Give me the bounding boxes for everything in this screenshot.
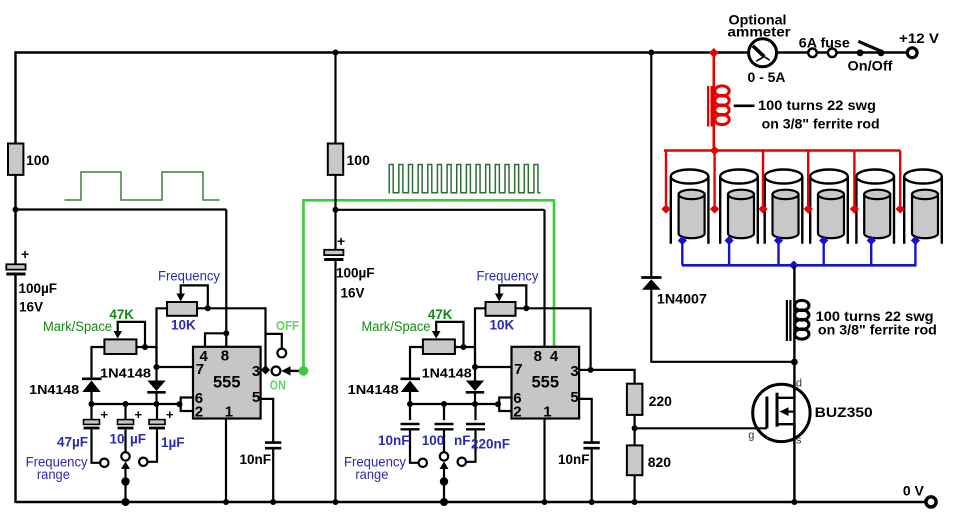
capacitor C-100uF/16V #1 plates <box>6 264 25 269</box>
wire cap3 upper stub (osc1) <box>156 404 158 420</box>
wire diode a to node row (osc2) <box>409 392 411 404</box>
svg-text:1: 1 <box>225 404 233 421</box>
wire pins6/2 bracket (osc2) <box>499 398 511 412</box>
wire red bus <box>664 149 900 152</box>
wire cap2 below to bottom rail <box>334 261 336 503</box>
svg-text:1µF: 1µF <box>161 435 185 450</box>
resistor R-100 left body <box>8 144 23 175</box>
arrow selector wiper (osc2) <box>440 462 449 470</box>
wire OFF branch <box>266 334 282 349</box>
node 10nF-rail (U1) <box>270 499 276 505</box>
node 820-rail <box>632 499 638 505</box>
node C supply2 x335 y210 <box>333 207 339 213</box>
wire 10K right to pin3 column (osc2) <box>516 308 591 370</box>
svg-text:3: 3 <box>570 363 578 380</box>
wire pin3 U2 to divider <box>591 370 635 384</box>
diode 1N4007 cathode bar <box>641 276 661 279</box>
node green wire end <box>299 366 309 376</box>
wire 10K wiper bracket (osc2) <box>499 285 526 308</box>
wire red vertical to bus <box>712 53 715 151</box>
wire left rail cap-to-bottom <box>14 275 16 503</box>
node drain junction <box>791 359 798 366</box>
wire cap1 upper stub (osc2) <box>409 404 411 420</box>
capacitor C-100uF/16V #2 plates <box>324 250 343 255</box>
diode 1N4148 b (osc1) cathode bar <box>147 391 165 394</box>
svg-text:+12 V: +12 V <box>899 30 940 46</box>
wire diode b to node row (osc1) <box>155 392 157 404</box>
node pins4/8 junction <box>223 330 229 336</box>
svg-text:s: s <box>796 435 802 447</box>
svg-text:47K: 47K <box>109 307 134 322</box>
diode 1N4007 body <box>642 279 661 290</box>
wire 10K right to pin3 column (osc1) <box>197 308 266 370</box>
wire pin1 to rail (U1) <box>225 419 227 504</box>
svg-text:220: 220 <box>649 393 673 409</box>
svg-text:220nF: 220nF <box>471 437 510 452</box>
svg-text:on 3/8" ferrite rod: on 3/8" ferrite rod <box>762 117 880 132</box>
node pin1-rail (U1) <box>223 499 229 505</box>
wire pin3 stub (U1) <box>261 369 266 371</box>
svg-text:10nF: 10nF <box>240 452 272 467</box>
svg-text:nF: nF <box>454 433 471 448</box>
wire left rail resistor-to-cap <box>14 174 16 265</box>
transistor Q1 channel bar <box>776 393 779 427</box>
potentiometer 10K (osc1) body <box>167 302 197 316</box>
node divider junction <box>632 425 638 431</box>
inductor L1 core lines <box>707 86 709 127</box>
node row junction a (osc2) <box>407 401 413 407</box>
svg-text:7: 7 <box>196 361 204 378</box>
svg-text:+: + <box>135 407 143 422</box>
wire pins6/2 bracket (osc1) <box>181 398 193 412</box>
svg-text:100: 100 <box>422 433 445 448</box>
inductor L2 core lines <box>786 300 788 341</box>
diode 1N4148 a (osc2) cathode bar <box>401 377 421 380</box>
arrow selector wiper (osc1) <box>121 462 130 470</box>
svg-text:on 3/8" ferrite rod: on 3/8" ferrite rod <box>818 323 937 338</box>
wire resistor2 upper stub <box>334 53 336 145</box>
arrow 47K wiper (osc1) <box>113 331 122 339</box>
wire pin7 row (osc2) <box>474 366 512 368</box>
node top rail x651 <box>648 50 654 56</box>
resistor R-820 body <box>627 445 643 475</box>
node cap2-rail <box>333 499 339 505</box>
svg-text:100: 100 <box>26 152 50 168</box>
wire blue bus <box>682 264 917 267</box>
diode 1N4148 b (osc2) cathode bar <box>466 391 484 394</box>
switch ON contact <box>272 367 281 376</box>
switch selector right contact (osc2) <box>458 458 466 466</box>
svg-text:1N4148: 1N4148 <box>348 382 399 397</box>
svg-text:d: d <box>796 378 802 390</box>
node source-rail <box>791 499 797 505</box>
wire gate wire <box>635 427 767 429</box>
wire blue drop cell 2 <box>728 242 730 265</box>
wire 10K left terminal down (osc1) <box>157 308 168 367</box>
node pin3 U2 junction <box>588 367 594 373</box>
switch selector mid contact (osc1) <box>121 452 129 460</box>
switch OFF contact <box>277 349 286 358</box>
resistor R-220 body <box>627 384 643 415</box>
capacitor cap1 electrolytic plates (osc1) <box>84 420 100 425</box>
svg-text:47K: 47K <box>428 307 453 322</box>
svg-text:4: 4 <box>550 348 559 365</box>
wire left rail upper <box>14 51 16 144</box>
svg-text:Mark/Space: Mark/Space <box>362 319 431 334</box>
node row junction b (osc2) <box>441 401 447 407</box>
svg-text:10: 10 <box>110 432 125 447</box>
op-amp/timer U1 555 body <box>193 347 261 419</box>
svg-text:100 turns 22 swg: 100 turns 22 swg <box>758 98 876 113</box>
node A junction left rail y209 <box>13 207 19 213</box>
capacitor 10nF (U2) plates <box>584 441 600 444</box>
svg-text:BUZ350: BUZ350 <box>815 405 873 420</box>
svg-text:+: + <box>21 246 29 262</box>
waveform slow square wave (osc1 output) <box>65 172 220 200</box>
svg-text:1N4148: 1N4148 <box>422 366 472 381</box>
svg-text:6A fuse: 6A fuse <box>799 35 850 51</box>
svg-text:100µF: 100µF <box>19 281 58 296</box>
svg-text:1N4148: 1N4148 <box>29 382 79 397</box>
node pin3 diamond <box>261 365 270 374</box>
wire cap2 upper stub (osc2) <box>443 404 445 420</box>
svg-text:555: 555 <box>532 374 560 392</box>
resistor R-100 mid body <box>328 144 343 175</box>
terminal 0V <box>926 497 936 507</box>
capacitor 10nF (U1) plates <box>265 441 281 444</box>
node blue electrode contact cell 3 <box>774 236 783 245</box>
svg-text:820: 820 <box>648 454 672 470</box>
wire red drop cell 5 <box>853 151 855 206</box>
svg-text:7: 7 <box>514 361 522 378</box>
svg-text:8: 8 <box>534 348 542 365</box>
wire cap3 upper stub (osc2) <box>474 404 476 420</box>
transistor Q1 body arrow <box>787 411 794 413</box>
svg-text:2: 2 <box>195 404 203 421</box>
cell 6 electrode tubes <box>904 170 942 244</box>
node selector wire blob (osc1) <box>121 477 129 485</box>
wire 10nF cap to rail (U1) <box>272 448 274 503</box>
svg-text:10nF: 10nF <box>378 433 410 448</box>
node blue electrode contact cell 2 <box>725 236 734 245</box>
svg-text:+: + <box>337 233 345 249</box>
wire red drop cell 6 <box>899 151 901 206</box>
node red electrode contact cell 5 <box>850 204 859 213</box>
node red electrode contact cell 3 <box>758 204 767 213</box>
svg-text:g: g <box>748 430 754 442</box>
node row junction c (osc1) <box>154 401 160 407</box>
inductor L2 turns <box>795 300 809 310</box>
wire blue-bus to drain-node vertical <box>793 265 795 362</box>
svg-text:ON: ON <box>270 377 286 392</box>
wire red drop cell 4 <box>807 151 809 206</box>
wire cap2 upper stub (osc1) <box>124 404 126 420</box>
diode 1N4148 b (osc1) body <box>147 381 165 392</box>
wire cap3 to selector right (osc1) <box>148 430 157 462</box>
svg-text:+: + <box>101 407 109 422</box>
capacitor cap1 plates (osc2) <box>401 423 420 425</box>
node 47K right terminal (osc2) <box>461 344 467 350</box>
transistor Q1 drain stub <box>777 384 794 398</box>
node red electrode contact cell 1 <box>661 204 670 213</box>
transistor Q1 inner vertical <box>793 398 795 424</box>
svg-text:10K: 10K <box>490 318 515 333</box>
wire 1N4007 to drain node <box>651 290 794 362</box>
wire blue drop cell 1 <box>681 242 683 265</box>
diode 1N4148 a (osc2) body <box>401 381 419 393</box>
svg-text:47µF: 47µF <box>57 435 88 450</box>
wire 47K right to diode column (osc2) <box>455 346 475 348</box>
wire pin5 to cap (U2) <box>579 399 592 442</box>
wire between 220 and 820 <box>633 415 635 446</box>
wire osc1 supply horizontal y209 <box>16 208 227 210</box>
svg-text:1N4007: 1N4007 <box>657 292 707 307</box>
svg-text:2: 2 <box>513 404 521 421</box>
wire 47K right to diode column (osc1) <box>136 346 156 348</box>
node 10K right terminal (osc2) <box>523 305 529 311</box>
capacitor cap2 electrolytic plates (osc1) <box>118 420 134 425</box>
wire bottom 0V rail <box>16 501 927 503</box>
fuse contact 1 <box>808 49 817 58</box>
transistor Q1 gate bar <box>765 397 768 429</box>
node pin7 junction (osc2) <box>472 364 478 370</box>
wire 47K left down to diode1 (osc1) <box>92 347 105 378</box>
svg-text:range: range <box>37 467 70 482</box>
wire 10K left terminal down (osc2) <box>475 308 486 367</box>
wire diode b to node row (osc2) <box>474 392 476 404</box>
wire osc2 supply horizontal y210 <box>336 209 545 211</box>
svg-text:Mark/Space: Mark/Space <box>43 319 112 334</box>
wire red drop cell 2 <box>713 151 715 206</box>
wire diode a to node row (osc1) <box>90 392 92 404</box>
svg-text:On/Off: On/Off <box>848 59 894 74</box>
capacitor cap3 plates (osc2) <box>466 423 485 425</box>
waveform fast square wave (osc2 output) <box>389 165 541 193</box>
node B top rail x335 <box>333 50 339 56</box>
capacitor cap2 plates (osc2) <box>435 423 454 425</box>
wire drain to node <box>793 362 795 398</box>
switch On/Off contact 2 <box>878 49 885 56</box>
svg-text:5: 5 <box>570 389 578 406</box>
node red bus junction <box>710 146 720 156</box>
potentiometer 47K (osc1) body <box>104 339 136 354</box>
svg-text:0 - 5A: 0 - 5A <box>748 69 786 85</box>
svg-text:µF: µF <box>130 432 146 447</box>
arrow 47K wiper (osc2) <box>432 331 441 339</box>
wire pin5 to cap (U1) <box>261 399 274 442</box>
wire 47K left down to diode1 (osc2) <box>410 347 423 378</box>
arrow 10K wiper (osc2) <box>495 294 504 302</box>
wire osc1 supply vertical x226 <box>225 210 227 334</box>
wire red drop cell 1 <box>665 151 667 206</box>
node blue bus junction <box>789 261 799 271</box>
node row junction d (osc1) <box>177 401 183 407</box>
terminal +12V <box>907 48 917 58</box>
cell 3 electrode tubes <box>765 170 803 244</box>
transistor Q1 BUZ350 circle <box>753 384 810 441</box>
wire 820 to rail <box>633 475 635 503</box>
wire 47K wiper bracket (osc1) <box>118 322 145 347</box>
capacitor cap3 electrolytic plates (osc1) <box>149 420 165 425</box>
transistor Q1 source stub <box>777 424 794 441</box>
potentiometer 10K (osc2) body <box>486 302 516 316</box>
node selector-rail junction (osc1) <box>122 498 130 506</box>
wire cap2 to selector mid (osc2) <box>443 430 445 453</box>
cell 1 electrode tubes <box>671 170 709 244</box>
wire pin1 to rail (U2) <box>543 419 545 504</box>
svg-text:range: range <box>355 467 388 482</box>
wire cap2 column down to rail <box>334 210 336 251</box>
wire osc2 supply vertical x544 to pin8 <box>543 210 545 347</box>
svg-text:100µF: 100µF <box>336 266 375 281</box>
wire 10nF cap to rail (U2) <box>591 448 593 503</box>
wire pin7 column (osc2) <box>474 347 476 381</box>
arrow 10K wiper (osc1) <box>176 294 185 302</box>
wire blue drop cell 4 <box>823 242 825 265</box>
node 10K right terminal (osc1) <box>205 305 211 311</box>
svg-text:10nF: 10nF <box>558 452 590 467</box>
node selector wire blob (osc2) <box>440 477 448 485</box>
svg-text:100: 100 <box>347 152 371 168</box>
svg-text:3: 3 <box>252 363 260 380</box>
node 47K right terminal (osc1) <box>142 344 148 350</box>
op-amp/timer U2 555 body <box>512 347 580 419</box>
svg-text:Frequency: Frequency <box>158 269 220 284</box>
svg-text:+: + <box>166 407 174 422</box>
inductor L1 turns <box>715 86 729 96</box>
switch On/Off lever <box>858 41 882 52</box>
node red electrode contact cell 6 <box>896 204 905 213</box>
node red electrode contact cell 4 <box>804 204 813 213</box>
wire source to rail <box>793 424 795 503</box>
svg-text:5: 5 <box>252 389 260 406</box>
svg-text:0 V: 0 V <box>903 483 925 499</box>
wire red drop cell 3 <box>762 151 764 206</box>
node row junction a (osc1) <box>89 401 95 407</box>
node row junction d (osc2) <box>495 401 501 407</box>
arrow switch wiper to ON <box>288 370 304 372</box>
switch On/Off contact 1 <box>857 49 864 56</box>
svg-text:1: 1 <box>543 404 551 421</box>
cell 4 electrode tubes <box>810 170 848 244</box>
wire cap1 to selector left (osc1) <box>92 430 101 463</box>
wire cap1 upper stub (osc1) <box>90 404 92 420</box>
meter needle <box>753 46 764 57</box>
node 10nF-rail (U2) <box>589 499 595 505</box>
node red feed on top rail <box>709 48 719 58</box>
node blue electrode contact cell 5 <box>867 236 876 245</box>
node blue electrode contact cell 6 <box>911 236 920 245</box>
node blue electrode contact cell 4 <box>819 236 828 245</box>
svg-text:8: 8 <box>221 347 229 364</box>
wire cap1 to selector left (osc2) <box>410 430 419 463</box>
diode 1N4148 a (osc1) body <box>82 381 100 393</box>
wire 1N4007 branch vertical <box>650 53 652 277</box>
switch selector mid contact (osc2) <box>440 452 448 460</box>
wire resistor2 lower stub <box>334 174 336 210</box>
svg-text:16V: 16V <box>19 300 43 315</box>
meter ammeter circle <box>749 39 777 67</box>
node row junction c (osc2) <box>472 401 478 407</box>
node pin7 junction (osc1) <box>154 364 160 370</box>
switch selector left contact (osc1) <box>100 459 108 467</box>
wire blue drop cell 3 <box>777 242 779 265</box>
svg-text:555: 555 <box>213 374 241 392</box>
switch selector right contact (osc1) <box>139 458 147 466</box>
svg-text:1N4148: 1N4148 <box>100 366 151 381</box>
wire cap3 to selector right (osc2) <box>466 430 475 462</box>
wire pointer dash to L1 text <box>734 105 755 108</box>
wire bottom node row (osc1) <box>92 403 181 405</box>
svg-text:Frequency: Frequency <box>477 269 539 284</box>
node row junction b (osc1) <box>123 401 129 407</box>
svg-text:10K: 10K <box>171 318 196 333</box>
wire 47K wiper bracket (osc2) <box>436 322 463 347</box>
node selector-rail junction (osc2) <box>440 498 448 506</box>
node pin1-rail (U2) <box>542 499 548 505</box>
diode 1N4148 a (osc1) cathode bar <box>82 377 102 380</box>
wire bottom node row (osc2) <box>410 403 499 405</box>
diode 1N4148 b (osc2) body <box>466 381 484 392</box>
switch selector left contact (osc2) <box>419 459 427 467</box>
wire top +12V rail <box>16 51 908 53</box>
svg-text:ammeter: ammeter <box>728 25 792 40</box>
wire pin7 row (osc1) <box>155 366 193 368</box>
wire blue drop cell 5 <box>870 242 872 265</box>
fuse contact 2 <box>828 49 837 58</box>
wire pins4+8 bracket <box>205 333 226 347</box>
potentiometer 47K (osc2) body <box>423 339 455 354</box>
wire green: 555#1 pin3 switch to 555#2 pin4 reset <box>304 200 555 371</box>
node blue electrode contact cell 1 <box>678 236 687 245</box>
svg-text:OFF: OFF <box>276 318 299 333</box>
cell 5 electrode tubes <box>856 170 894 244</box>
wire cap2 to selector mid (osc1) <box>124 430 126 453</box>
svg-text:16V: 16V <box>341 286 365 301</box>
wire blue drop cell 6 <box>914 242 916 265</box>
wire pin3 stub (U2) <box>579 369 591 371</box>
wire pin7 column (osc1) <box>155 347 157 381</box>
cell 2 electrode tubes <box>720 170 758 244</box>
node red electrode contact cell 2 <box>710 204 719 213</box>
wire 10K wiper bracket (osc1) <box>181 285 208 308</box>
